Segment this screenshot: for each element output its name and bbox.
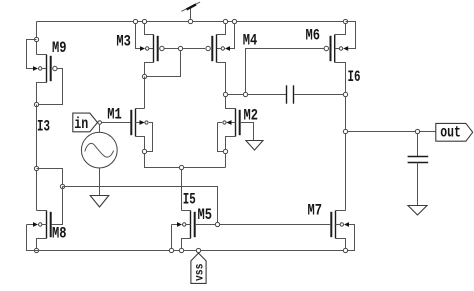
bubble M4 xyxy=(206,46,210,50)
transistor M5 NMOS tail xyxy=(172,211,216,249)
gate M5 xyxy=(194,212,196,237)
wire tail to M5 drain xyxy=(181,170,183,211)
wire M9 bulk xyxy=(27,40,37,69)
wire M3 source lead xyxy=(145,22,154,35)
channel M9 xyxy=(46,55,48,83)
node M5 source on rail xyxy=(179,248,183,252)
channel M6 xyxy=(334,35,336,63)
wire M5 source lead xyxy=(182,239,191,249)
gate M1 xyxy=(130,110,132,135)
arrow M4 bulk xyxy=(225,46,230,51)
wire M7 drain lead xyxy=(336,210,346,212)
wire M2 gate to ground xyxy=(241,123,254,141)
transistor M3 PMOS mirror xyxy=(133,19,178,74)
arrow M6 bulk xyxy=(343,46,348,51)
wire M2 bulk xyxy=(218,123,224,152)
wire M6 drain lead xyxy=(335,63,346,93)
wire M9 source lead xyxy=(37,54,47,56)
node M6 source on rail xyxy=(343,19,347,23)
node M7 source on rail xyxy=(343,248,347,252)
transistor M2 NMOS xyxy=(218,97,254,152)
channel M7 xyxy=(335,211,337,239)
wire M7 source lead xyxy=(336,239,346,251)
wire M2 drain lead xyxy=(226,97,236,109)
channel M2 xyxy=(235,109,237,137)
node load cap tee xyxy=(415,129,419,133)
arrow M8 bulk xyxy=(33,222,38,227)
wire bias branch xyxy=(37,169,63,187)
ground below V1 xyxy=(90,196,109,208)
wire bias line to M5-M7 xyxy=(63,187,218,223)
svg-text:M4: M4 xyxy=(243,31,258,49)
wire M4 drain lead xyxy=(217,63,226,93)
channel M4 xyxy=(216,35,218,63)
wire M1 source to tail xyxy=(145,154,226,168)
wire load cap top xyxy=(417,134,419,157)
wire M7 bulk xyxy=(348,225,355,251)
bubble M3 xyxy=(160,46,164,50)
wire M5 bulk xyxy=(172,225,178,249)
arrow M7 bulk xyxy=(344,222,349,227)
wire M5 gate to node xyxy=(196,224,215,226)
svg-text:I5: I5 xyxy=(183,191,196,209)
wire VDD top rail xyxy=(37,21,356,23)
transistor M8 NMOS xyxy=(27,211,51,251)
node M3 source on rail xyxy=(142,19,146,23)
channel M3 xyxy=(153,35,155,63)
wire gate node to M7 xyxy=(220,224,330,226)
power flag VDD xyxy=(181,2,200,24)
wire M3 gate to node xyxy=(164,48,178,50)
svg-text:in: in xyxy=(74,115,88,133)
transistor M6 PMOS output xyxy=(324,19,355,92)
transistor M9 PMOS diode-connected xyxy=(27,40,63,105)
gate M4 xyxy=(211,36,213,61)
wire V1 bottom stem xyxy=(99,168,101,196)
node M4 source on rail xyxy=(223,19,227,23)
node M5 bulk on rail xyxy=(169,248,173,252)
wire M1 drain lead xyxy=(136,108,145,110)
gate M3 xyxy=(157,36,159,61)
wire M9 gate loop to drain xyxy=(39,69,63,105)
svg-text:vss: vss xyxy=(193,263,206,281)
ground below load cap xyxy=(408,206,427,216)
wire node to cap node xyxy=(228,94,243,96)
wire M6 bulk xyxy=(346,22,356,49)
node bias tee xyxy=(34,166,38,170)
transistor M7 NMOS output xyxy=(331,211,354,251)
node tail xyxy=(179,165,183,169)
wire M2 source down to tail xyxy=(225,154,227,168)
wire left spine upper xyxy=(36,22,38,55)
wire M8 drain lead xyxy=(37,210,47,212)
wire I6 vertical xyxy=(345,97,347,129)
source V1 sine xyxy=(81,132,117,195)
arrow M3 bulk xyxy=(140,46,145,51)
wire M6 gate branch xyxy=(246,49,325,93)
wire M4 source lead xyxy=(217,22,226,35)
ground at M2 gate xyxy=(246,141,263,151)
svg-text:M2: M2 xyxy=(244,106,259,124)
node M2 source xyxy=(223,149,227,153)
flag in xyxy=(73,113,102,133)
arrow M2 bulk xyxy=(226,120,231,125)
svg-text:M6: M6 xyxy=(306,27,321,45)
wire VSS bottom rail xyxy=(27,250,355,252)
channel M1 xyxy=(135,109,137,137)
wire M3 drain lead xyxy=(145,63,154,75)
gate M8 xyxy=(50,212,52,237)
svg-text:M8: M8 xyxy=(52,224,67,242)
gate M2 xyxy=(239,110,241,135)
wire cap right xyxy=(294,94,345,96)
node M3-M4 gate node xyxy=(178,46,182,50)
wire output down to M7 drain xyxy=(345,134,347,211)
node M4 bulk on rail xyxy=(232,19,236,23)
wire left spine mid I3 xyxy=(36,105,38,211)
node M6 gate tee xyxy=(243,92,247,96)
arrow M5 bulk xyxy=(177,222,182,227)
svg-text:M3: M3 xyxy=(116,32,131,50)
flag vss xyxy=(191,253,206,283)
node M9 drain-gate junction xyxy=(34,102,38,106)
wire gate node down to M3 drain xyxy=(147,51,181,77)
wire M1 source lead xyxy=(136,137,145,150)
gate M7 xyxy=(330,212,332,237)
bubble M9 xyxy=(53,66,57,70)
node M5-M7 gate xyxy=(215,222,219,226)
wire M1 drain vertical xyxy=(144,77,146,109)
capacitor Cc xyxy=(287,85,294,103)
wire M3 bulk xyxy=(136,22,141,49)
svg-text:M5: M5 xyxy=(198,206,213,224)
svg-text:I3: I3 xyxy=(37,118,50,136)
wire M9 drain lead xyxy=(37,83,47,105)
node bias corner xyxy=(60,184,64,188)
node M6 drain - cap xyxy=(343,92,347,96)
svg-text:I6: I6 xyxy=(348,68,361,86)
node M1 source xyxy=(142,149,146,153)
svg-text:out: out xyxy=(440,124,461,142)
svg-text:M7: M7 xyxy=(308,201,323,219)
transistor M4 PMOS mirror xyxy=(206,19,237,92)
channel M8 xyxy=(46,211,48,239)
wire M8 gate branch xyxy=(52,187,63,225)
wire output to out flag xyxy=(348,131,436,133)
node output xyxy=(343,129,347,133)
node vss tap xyxy=(196,248,200,252)
channel M5 xyxy=(190,211,192,239)
arrow M1 bulk xyxy=(140,120,145,125)
gate M6 xyxy=(330,36,332,61)
flag out xyxy=(436,123,473,141)
node M2-M4 drain xyxy=(223,92,227,96)
wire in to M1 gate xyxy=(102,122,131,124)
wire gate node to M4 xyxy=(183,48,205,50)
svg-text:M9: M9 xyxy=(52,39,67,57)
gate M9 xyxy=(50,56,52,81)
wire in down to source xyxy=(99,124,101,132)
wire M1 bulk xyxy=(147,123,153,152)
transistor M1 NMOS xyxy=(131,109,152,152)
arrow M9 bulk xyxy=(33,66,38,71)
wire M8 bulk xyxy=(27,225,35,251)
node M9 source-bulk junction xyxy=(34,37,38,41)
node M3 bulk on rail xyxy=(133,19,137,23)
wire M2 source lead xyxy=(226,137,236,150)
wire M6 source lead xyxy=(335,22,346,35)
bubble M6 xyxy=(324,46,328,50)
node M8 source on rail xyxy=(34,248,38,252)
wire M5 drain lead xyxy=(182,210,191,212)
wire M4 bulk xyxy=(230,22,235,49)
wire cap left xyxy=(248,94,286,96)
node M3 drain - M1 drain xyxy=(142,74,146,78)
wire load cap bottom xyxy=(417,163,419,206)
wire M8 source lead xyxy=(37,239,47,251)
capacitor CL xyxy=(408,157,429,163)
svg-text:M1: M1 xyxy=(107,106,122,124)
